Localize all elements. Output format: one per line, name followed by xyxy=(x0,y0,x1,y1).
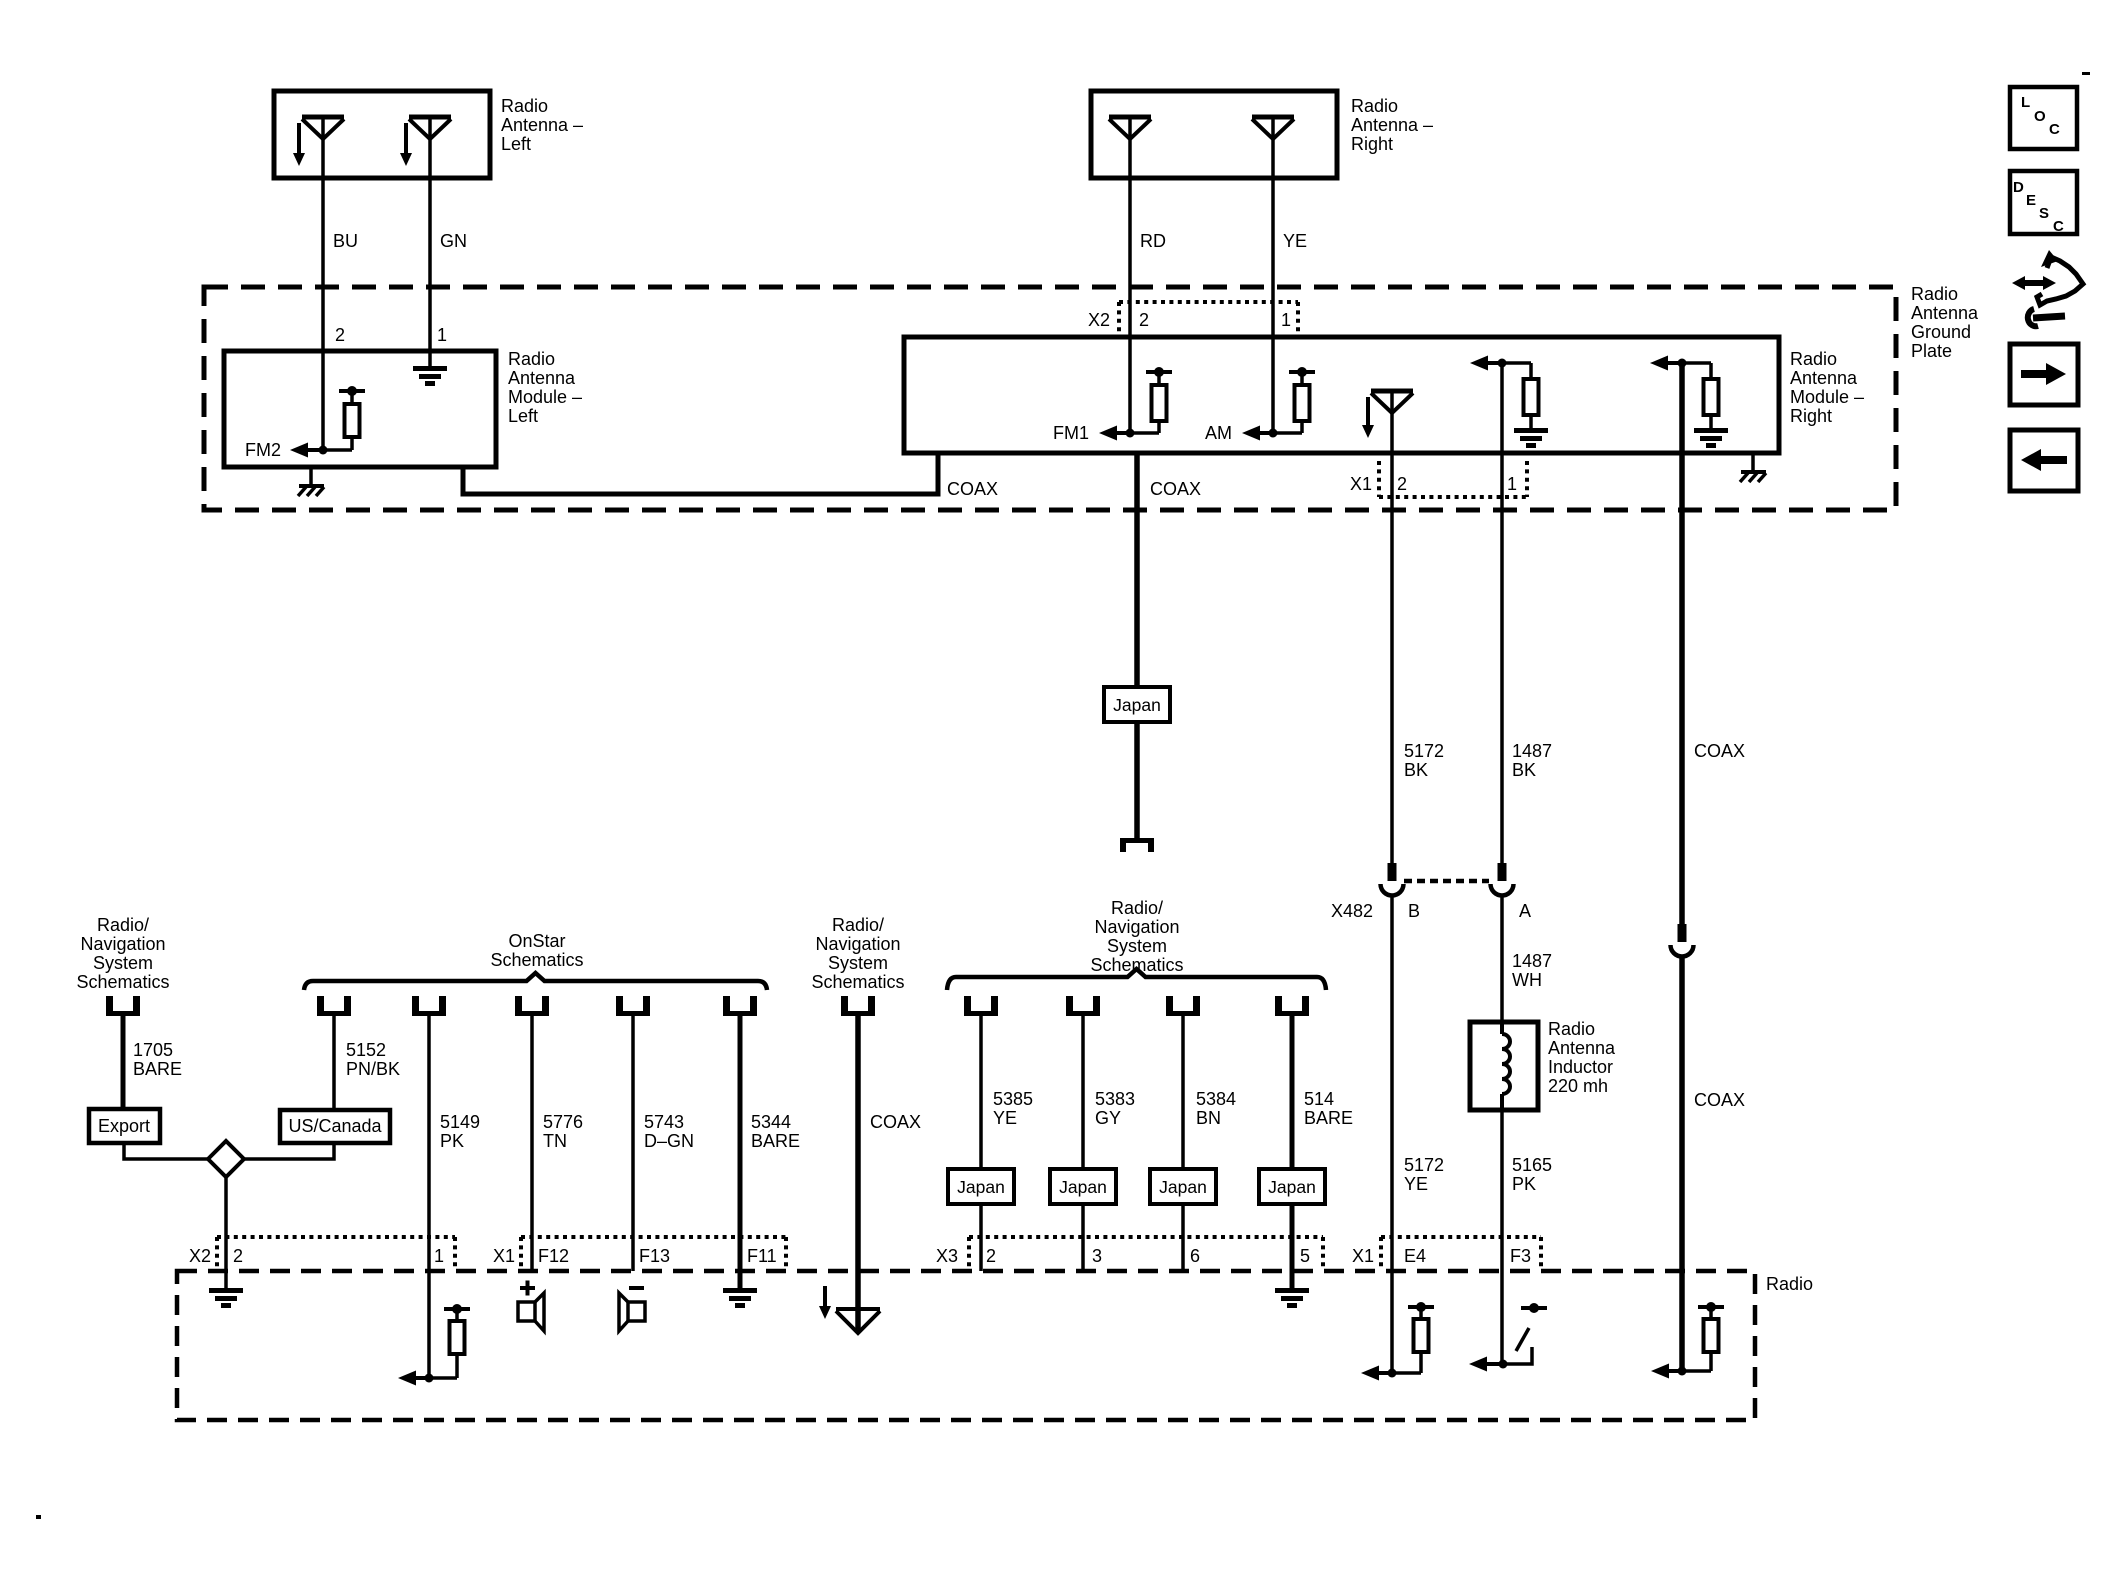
switch wire (5165) xyxy=(1503,1347,1532,1364)
resistor set1 with ground xyxy=(1502,363,1548,448)
svg-text:6: 6 xyxy=(1190,1246,1200,1266)
svg-text:X3: X3 xyxy=(936,1246,958,1266)
svg-text:L: L xyxy=(2021,94,2030,111)
svg-text:Inductor: Inductor xyxy=(1548,1057,1613,1077)
chassis ground (module left) xyxy=(298,467,324,496)
wire label COAX (center) xyxy=(1150,479,1201,499)
wire label 5385 YE xyxy=(993,1089,1033,1128)
wire YE xyxy=(1271,117,1275,433)
svg-text:5165: 5165 xyxy=(1512,1155,1552,1175)
label Radio Antenna - Left xyxy=(501,96,583,154)
svg-text:1: 1 xyxy=(437,325,447,345)
down arrow at A1 xyxy=(293,123,305,166)
wire 5149 PK xyxy=(427,1016,431,1378)
icon double arrow with part and wrench xyxy=(2012,250,2083,326)
svg-text:2: 2 xyxy=(335,325,345,345)
svg-text:US/Canada: US/Canada xyxy=(288,1116,382,1136)
arrow 5149 xyxy=(398,1371,429,1386)
wire US/Canada to diamond xyxy=(242,1143,334,1159)
ground (X3-5) xyxy=(1275,1288,1309,1308)
svg-text:PN/BK: PN/BK xyxy=(346,1059,400,1079)
pin 5 (X3) xyxy=(1300,1246,1310,1266)
chassis ground (module right) xyxy=(1740,453,1766,482)
svg-text:Schematics: Schematics xyxy=(490,950,583,970)
svg-text:1487: 1487 xyxy=(1512,951,1552,971)
svg-text:Radio: Radio xyxy=(508,349,555,369)
svg-text:D: D xyxy=(2013,179,2024,196)
speaker F13 xyxy=(619,1293,645,1331)
svg-text:BU: BU xyxy=(333,231,358,251)
pin 2 (X1 module) xyxy=(1397,474,1407,494)
svg-text:Antenna: Antenna xyxy=(508,368,576,388)
wire label GN xyxy=(440,231,467,251)
plus sign (speaker F12) xyxy=(520,1281,535,1296)
pin 2 (X2 top) xyxy=(1139,310,1149,330)
pin 6 (X3) xyxy=(1190,1246,1200,1266)
svg-text:5152: 5152 xyxy=(346,1040,386,1060)
svg-text:Radio: Radio xyxy=(1911,284,1958,304)
svg-text:O: O xyxy=(2034,108,2046,125)
wire label 5172 YE xyxy=(1404,1155,1444,1194)
svg-text:5776: 5776 xyxy=(543,1112,583,1132)
svg-text:2: 2 xyxy=(1397,474,1407,494)
connector X482 A xyxy=(1491,863,1514,896)
svg-text:F13: F13 xyxy=(639,1246,670,1266)
wire label 5344 BARE xyxy=(751,1112,800,1151)
label X1 (radio right) xyxy=(1352,1246,1374,1266)
wire 5776 TN xyxy=(530,1016,534,1271)
wire 1487 BK (module to X482 A) xyxy=(1500,363,1504,863)
pin 2 (X3) xyxy=(986,1246,996,1266)
svg-text:Export: Export xyxy=(98,1116,150,1136)
Japan box (center) xyxy=(1104,687,1170,722)
wire label COAX (right bottom) xyxy=(1694,1090,1745,1110)
switch blade (5165) xyxy=(1516,1328,1529,1351)
icon box arrow right xyxy=(2010,344,2078,405)
label FM2 xyxy=(245,440,281,460)
pin 3 (X3) xyxy=(1092,1246,1102,1266)
svg-text:Radio: Radio xyxy=(1351,96,1398,116)
svg-text:5743: 5743 xyxy=(644,1112,684,1132)
box Radio Antenna Module - Left xyxy=(224,351,496,467)
off-page bracket 5152 xyxy=(317,996,351,1016)
svg-text:YE: YE xyxy=(993,1108,1017,1128)
arrow 5165 xyxy=(1469,1357,1503,1372)
arrow set2 xyxy=(1650,356,1682,371)
svg-text:Left: Left xyxy=(508,406,538,426)
svg-text:X2: X2 xyxy=(189,1246,211,1266)
wire label 5165 PK xyxy=(1512,1155,1552,1194)
junction set2 (module right) xyxy=(1678,359,1687,368)
svg-text:Right: Right xyxy=(1351,134,1393,154)
svg-text:Antenna: Antenna xyxy=(1790,368,1858,388)
svg-text:Navigation: Navigation xyxy=(815,934,900,954)
connector X1 (module right bottom) xyxy=(1379,461,1527,497)
stray mark top right xyxy=(2082,72,2090,75)
dashed box Radio xyxy=(177,1271,1755,1420)
down arrow (radio antenna input) xyxy=(819,1286,831,1319)
ground (F11) xyxy=(723,1288,757,1308)
Japan box 5383 xyxy=(1050,1169,1116,1204)
wire label YE xyxy=(1283,231,1307,251)
svg-text:Japan: Japan xyxy=(957,1177,1005,1197)
svg-text:1705: 1705 xyxy=(133,1040,173,1060)
svg-text:Radio: Radio xyxy=(1548,1019,1595,1039)
pin F11 xyxy=(747,1246,777,1266)
svg-text:5172: 5172 xyxy=(1404,1155,1444,1175)
svg-text:Navigation: Navigation xyxy=(80,934,165,954)
box Radio Antenna - Right xyxy=(1091,91,1337,178)
label X1 (radio) xyxy=(493,1246,515,1266)
wire label 5172 BK xyxy=(1404,741,1444,780)
antenna symbol A2 (left box) xyxy=(409,117,451,139)
svg-text:1: 1 xyxy=(1281,310,1291,330)
label Radio Antenna Ground Plate xyxy=(1911,284,1979,361)
wire label 1705 BARE xyxy=(133,1040,182,1079)
dashed link X482 xyxy=(1404,879,1489,884)
svg-text:GN: GN xyxy=(440,231,467,251)
off-page bracket 5344 xyxy=(723,996,757,1016)
pin 1 (X2 radio) xyxy=(434,1246,444,1266)
pin 1 (X2 top) xyxy=(1281,310,1291,330)
svg-text:X2: X2 xyxy=(1088,310,1110,330)
svg-text:System: System xyxy=(93,953,153,973)
off-page bracket 5149 xyxy=(412,996,446,1016)
svg-text:5149: 5149 xyxy=(440,1112,480,1132)
inductor box xyxy=(1470,1022,1538,1110)
svg-text:1487: 1487 xyxy=(1512,741,1552,761)
arrow FM2 xyxy=(290,443,323,458)
pin F3 xyxy=(1510,1246,1531,1266)
svg-text:Schematics: Schematics xyxy=(76,972,169,992)
svg-text:COAX: COAX xyxy=(870,1112,921,1132)
wire 5344 BARE xyxy=(738,1016,743,1288)
wire 5743 D-GN xyxy=(631,1016,635,1271)
label pin B xyxy=(1408,901,1420,921)
svg-text:Japan: Japan xyxy=(1113,695,1161,715)
svg-text:F11: F11 xyxy=(747,1246,777,1266)
connector X3 (radio) xyxy=(969,1237,1323,1269)
icon box DESC xyxy=(2010,171,2077,235)
junction FM1 xyxy=(1126,429,1135,438)
terminator cap xyxy=(1120,838,1154,852)
resistor (5149 radio) xyxy=(429,1304,470,1378)
label pin A xyxy=(1519,901,1531,921)
svg-text:D–GN: D–GN xyxy=(644,1131,694,1151)
svg-text:PK: PK xyxy=(440,1131,464,1151)
junction 5165 xyxy=(1499,1360,1508,1369)
minus sign (speaker F13) xyxy=(629,1286,644,1290)
brace Radio/Navigation xyxy=(947,969,1326,990)
wire antenna stem to X482 B xyxy=(1390,391,1394,863)
junction COAX radio xyxy=(1678,1367,1687,1376)
label X3 (radio) xyxy=(936,1246,958,1266)
wire BU xyxy=(321,117,325,450)
connector X1 (radio speakers) xyxy=(521,1237,786,1269)
wire diamond to X2-2 xyxy=(224,1177,228,1288)
label Radio/Navigation System Schematics (2) xyxy=(811,915,904,992)
svg-text:2: 2 xyxy=(986,1246,996,1266)
resistor (module left) xyxy=(323,386,365,450)
svg-text:RD: RD xyxy=(1140,231,1166,251)
antenna symbol A5 (module right) xyxy=(1371,391,1413,413)
label X482 xyxy=(1331,901,1373,921)
svg-text:Japan: Japan xyxy=(1268,1177,1316,1197)
svg-text:5383: 5383 xyxy=(1095,1089,1135,1109)
radio antenna input symbol xyxy=(836,1309,880,1333)
pin E4 xyxy=(1404,1246,1426,1266)
svg-text:Navigation: Navigation xyxy=(1094,917,1179,937)
svg-text:E4: E4 xyxy=(1404,1246,1426,1266)
svg-text:Radio: Radio xyxy=(1766,1274,1813,1294)
svg-text:Radio: Radio xyxy=(1790,349,1837,369)
speaker F12 xyxy=(518,1293,544,1331)
wire 5385 YE xyxy=(979,1016,983,1271)
label FM1 xyxy=(1053,423,1089,443)
svg-text:FM1: FM1 xyxy=(1053,423,1089,443)
svg-text:Radio/: Radio/ xyxy=(1111,898,1163,918)
inductor coil xyxy=(1502,1024,1510,1110)
svg-text:514: 514 xyxy=(1304,1089,1334,1109)
wire 5383 GY xyxy=(1081,1016,1085,1271)
svg-text:Radio/: Radio/ xyxy=(832,915,884,935)
label Radio Antenna Inductor 220 mh xyxy=(1548,1019,1616,1096)
wire 1487 WH (X482 to inductor) xyxy=(1500,896,1504,1024)
junction AM xyxy=(1269,429,1278,438)
stray mark bottom left xyxy=(36,1515,41,1519)
wire GN xyxy=(428,117,432,366)
wire label 5149 PK xyxy=(440,1112,480,1151)
wire below Japan box xyxy=(1134,722,1140,840)
pin 2 (module left) xyxy=(335,325,345,345)
svg-text:Schematics: Schematics xyxy=(811,972,904,992)
label OnStar Schematics xyxy=(490,931,583,970)
arrow set1 xyxy=(1470,356,1502,371)
connector COAX inline xyxy=(1671,924,1694,957)
svg-text:5385: 5385 xyxy=(993,1089,1033,1109)
junction 5149 xyxy=(425,1374,434,1383)
svg-text:TN: TN xyxy=(543,1131,567,1151)
svg-text:3: 3 xyxy=(1092,1246,1102,1266)
pin 1 (module left) xyxy=(437,325,447,345)
svg-text:1: 1 xyxy=(1507,474,1517,494)
svg-text:GY: GY xyxy=(1095,1108,1121,1128)
svg-text:2: 2 xyxy=(1139,310,1149,330)
antenna symbol A4 (right box) xyxy=(1252,117,1294,139)
off-page bracket 5383 xyxy=(1066,996,1100,1016)
svg-text:F3: F3 xyxy=(1510,1246,1531,1266)
resistor set2 with ground xyxy=(1682,363,1728,448)
svg-text:FM2: FM2 xyxy=(245,440,281,460)
brace OnStar xyxy=(304,973,767,990)
arrow 5172 xyxy=(1361,1366,1392,1381)
diamond junction xyxy=(208,1141,244,1177)
svg-text:C: C xyxy=(2049,121,2060,138)
svg-text:5: 5 xyxy=(1300,1246,1310,1266)
wire label 1487 BK xyxy=(1512,741,1552,780)
svg-text:A: A xyxy=(1519,901,1531,921)
wire 5172 YE (X482 to radio) xyxy=(1390,896,1394,1373)
svg-text:WH: WH xyxy=(1512,970,1542,990)
svg-text:YE: YE xyxy=(1404,1174,1428,1194)
wire label BU xyxy=(333,231,358,251)
pin F13 xyxy=(639,1246,670,1266)
box Radio Antenna Module - Right xyxy=(904,337,1779,453)
svg-text:AM: AM xyxy=(1205,423,1232,443)
svg-text:B: B xyxy=(1408,901,1420,921)
off-page bracket 5776 xyxy=(515,996,549,1016)
resistor (AM) xyxy=(1273,367,1315,433)
icon box LOC xyxy=(2010,87,2077,149)
svg-text:Left: Left xyxy=(501,134,531,154)
box Export xyxy=(89,1109,160,1143)
svg-text:BARE: BARE xyxy=(751,1131,800,1151)
svg-text:5384: 5384 xyxy=(1196,1089,1236,1109)
svg-text:X1: X1 xyxy=(1352,1246,1374,1266)
svg-text:1: 1 xyxy=(434,1246,444,1266)
svg-text:Module –: Module – xyxy=(1790,387,1864,407)
wire label 5383 GY xyxy=(1095,1089,1135,1128)
off-page bracket 1705 xyxy=(106,996,140,1016)
svg-text:BARE: BARE xyxy=(133,1059,182,1079)
svg-text:Antenna –: Antenna – xyxy=(1351,115,1433,135)
ground (X2-2) xyxy=(209,1288,243,1308)
svg-text:COAX: COAX xyxy=(1150,479,1201,499)
wire 5384 BN xyxy=(1181,1016,1185,1271)
svg-text:220 mh: 220 mh xyxy=(1548,1076,1608,1096)
switch terminal (5165) xyxy=(1521,1303,1547,1313)
resistor (FM1) xyxy=(1130,367,1172,433)
svg-text:Japan: Japan xyxy=(1159,1177,1207,1197)
svg-text:BN: BN xyxy=(1196,1108,1221,1128)
wire 514 BARE xyxy=(1290,1016,1295,1288)
junction set1 (module right) xyxy=(1498,359,1507,368)
svg-text:PK: PK xyxy=(1512,1174,1536,1194)
wire Export to diamond xyxy=(124,1143,210,1159)
svg-text:System: System xyxy=(1107,936,1167,956)
svg-text:Antenna: Antenna xyxy=(1548,1038,1616,1058)
wire label COAX (right top) xyxy=(1694,741,1745,761)
antenna symbol A1 (left box) xyxy=(302,117,344,139)
label Radio/Navigation System Schematics (1) xyxy=(76,915,169,992)
label Radio Antenna Module - Right xyxy=(1790,349,1864,426)
label Radio/Navigation System Schematics (3) xyxy=(1090,898,1183,975)
pin F12 xyxy=(538,1246,569,1266)
Japan box 5384 xyxy=(1150,1169,1216,1204)
svg-text:COAX: COAX xyxy=(947,479,998,499)
wire 5152 PN/BK xyxy=(332,1016,336,1110)
label Radio xyxy=(1766,1274,1813,1294)
svg-text:Radio/: Radio/ xyxy=(97,915,149,935)
svg-text:Right: Right xyxy=(1790,406,1832,426)
svg-text:E: E xyxy=(2026,192,2036,209)
icon box arrow left xyxy=(2010,430,2078,491)
label Radio Antenna - Right xyxy=(1351,96,1433,154)
resistor (5172 radio) xyxy=(1392,1302,1434,1373)
connector X2 (right module top) xyxy=(1119,302,1298,332)
off-page bracket COAX (radio input) xyxy=(841,996,875,1016)
off-page bracket 5384 xyxy=(1166,996,1200,1016)
pin 1 (X1 module) xyxy=(1507,474,1517,494)
resistor (COAX radio) xyxy=(1682,1302,1724,1371)
Japan box 5385 xyxy=(948,1169,1014,1204)
wire label 1487 WH xyxy=(1512,951,1552,990)
wire label COAX (radio input) xyxy=(870,1112,921,1132)
wire COAX (connector to radio) xyxy=(1679,957,1685,1371)
box US/Canada xyxy=(280,1110,390,1143)
wire label 5384 BN xyxy=(1196,1089,1236,1128)
svg-text:YE: YE xyxy=(1283,231,1307,251)
label X1 (module) xyxy=(1350,474,1372,494)
svg-text:BARE: BARE xyxy=(1304,1108,1353,1128)
box Radio Antenna - Left xyxy=(274,91,490,178)
svg-text:S: S xyxy=(2039,205,2049,222)
label AM xyxy=(1205,423,1232,443)
svg-text:X1: X1 xyxy=(493,1246,515,1266)
svg-text:Plate: Plate xyxy=(1911,341,1952,361)
svg-text:Antenna –: Antenna – xyxy=(501,115,583,135)
off-page bracket 514 xyxy=(1275,996,1309,1016)
arrow FM1 xyxy=(1099,426,1130,441)
wire label 5776 TN xyxy=(543,1112,583,1151)
svg-text:F12: F12 xyxy=(538,1246,569,1266)
off-page bracket 5743 xyxy=(616,996,650,1016)
wire RD xyxy=(1128,117,1132,433)
junction 5172 xyxy=(1388,1369,1397,1378)
label X2 (top) xyxy=(1088,310,1110,330)
svg-text:OnStar: OnStar xyxy=(508,931,565,951)
wire 5165 PK (inductor to radio) xyxy=(1500,1110,1504,1364)
wire COAX (to radio antenna input) xyxy=(855,1016,861,1333)
label X2 (radio) xyxy=(189,1246,211,1266)
svg-text:System: System xyxy=(828,953,888,973)
wire label COAX (link) xyxy=(947,479,998,499)
svg-text:Ground: Ground xyxy=(1911,322,1971,342)
svg-text:BK: BK xyxy=(1404,760,1428,780)
junction (FM2) xyxy=(319,446,328,455)
connector X482 B xyxy=(1381,863,1404,896)
ground (pin 1, module left) xyxy=(413,366,447,386)
svg-text:COAX: COAX xyxy=(1694,1090,1745,1110)
pin 2 (X2 radio) xyxy=(233,1246,243,1266)
svg-text:X482: X482 xyxy=(1331,901,1373,921)
svg-text:2: 2 xyxy=(233,1246,243,1266)
wire label 5743 D-GN xyxy=(644,1112,694,1151)
svg-text:Japan: Japan xyxy=(1059,1177,1107,1197)
connector X1 (radio right) xyxy=(1381,1237,1541,1269)
wire COAX (left module to right module) xyxy=(463,451,938,494)
connector X2 (radio) xyxy=(217,1237,455,1269)
svg-text:COAX: COAX xyxy=(1694,741,1745,761)
Japan box 514 xyxy=(1259,1169,1325,1204)
svg-text:Antenna: Antenna xyxy=(1911,303,1979,323)
wire label 514 BARE xyxy=(1304,1089,1353,1128)
svg-text:Radio: Radio xyxy=(501,96,548,116)
label Radio Antenna Module - Left xyxy=(508,349,582,426)
wire label 5152 PN/BK xyxy=(346,1040,400,1079)
wire COAX right (module to connector) xyxy=(1679,363,1685,924)
down arrow at A2 xyxy=(400,123,412,166)
wire 1705 BARE xyxy=(121,1016,126,1109)
svg-text:5344: 5344 xyxy=(751,1112,791,1132)
wire COAX (module center down) xyxy=(1134,453,1140,687)
arrow COAX radio xyxy=(1651,1364,1682,1379)
svg-text:5172: 5172 xyxy=(1404,741,1444,761)
off-page bracket 5385 xyxy=(964,996,998,1016)
antenna symbol A3 (right box) xyxy=(1109,117,1151,139)
svg-text:Module –: Module – xyxy=(508,387,582,407)
svg-text:C: C xyxy=(2053,218,2064,235)
